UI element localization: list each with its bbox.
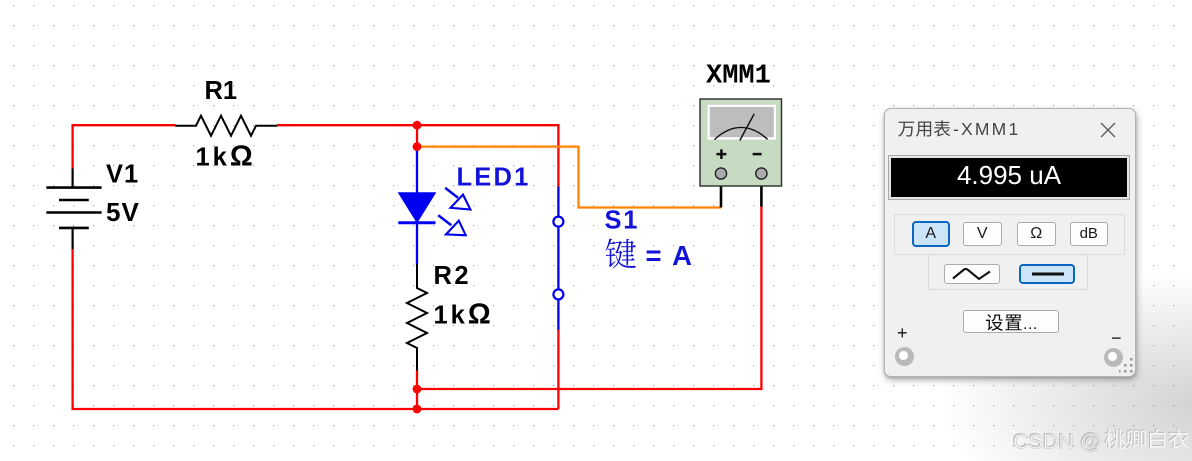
button DC (selected) [1019, 264, 1075, 285]
junction node dot rail lower [413, 405, 422, 414]
button A (selected) [912, 221, 951, 247]
resistor R1 [175, 116, 277, 136]
panel title [953, 119, 1020, 140]
panel title CJK 万用表 [898, 120, 950, 136]
XMM1 minus wire (black) [760, 178, 763, 207]
wire: R1 to switch corner (red) [277, 125, 558, 187]
signal group box [928, 254, 1088, 290]
svg-text:= A: = A [646, 240, 695, 271]
wire: node to node (red) [416, 125, 418, 146]
wire: battery top to R1 (red) [73, 125, 176, 169]
svg-text:5V: 5V [106, 197, 140, 227]
LED1 anode wire (blue) [416, 150, 418, 193]
junction node dot top [413, 121, 422, 130]
minus terminal label [1111, 328, 1122, 349]
junction node dot rail upper [413, 385, 422, 394]
minus terminal jack [1104, 348, 1123, 367]
resistor R2 [407, 264, 427, 370]
XMM1 plus wire (black) [720, 178, 723, 208]
LED1 emission arrow 1 [445, 188, 470, 210]
wire: R2 bottom to node A rail to XMM1 minus (red) [417, 206, 761, 409]
svg-text:LED1: LED1 [457, 164, 531, 192]
wire: orange node to switch to XMM1 plus [417, 147, 721, 208]
bottom-right corner shading [935, 245, 1192, 461]
svg-text:XMM1: XMM1 [706, 62, 771, 92]
svg-text:1kΩ: 1kΩ [196, 141, 256, 173]
button AC (sine) [944, 264, 1001, 284]
svg-text:R1: R1 [205, 77, 238, 105]
plus terminal label [897, 323, 908, 344]
watermark CSDN @桃卿白衣 [1012, 428, 1189, 453]
panel close button [1100, 122, 1116, 138]
LED1 emission arrow 2 [438, 215, 466, 235]
button Ω [1017, 222, 1056, 247]
switch S1 terminal circle bottom [553, 289, 563, 299]
wire: switch bottom leg (red) [557, 330, 559, 410]
switch S1 terminal circle top [553, 217, 563, 227]
LED1 cathode wire (blue) [416, 224, 418, 265]
button V [963, 222, 1002, 247]
svg-text:S1: S1 [605, 207, 640, 235]
battery V1 [46, 169, 101, 250]
plus terminal jack [895, 347, 914, 366]
junction node dot orange tap [413, 142, 422, 151]
label 键 (of 键 = A) [606, 239, 637, 269]
panel reading [889, 156, 1129, 198]
settings button CJK 设置 [986, 314, 1038, 333]
svg-text:1kΩ: 1kΩ [434, 299, 494, 331]
multimeter panel 万用表-XMM1 [884, 108, 1136, 377]
multimeter XMM1 icon [700, 99, 782, 186]
svg-text:V1: V1 [106, 161, 139, 189]
wire: battery bottom to switch bottom (red) [73, 249, 559, 410]
panel display [889, 156, 1129, 199]
LED1 triangle [399, 193, 435, 222]
resize grip [1119, 357, 1134, 374]
settings button 设置... [963, 310, 1059, 333]
switch S1 lead (blue) [557, 187, 559, 330]
mode group box [894, 214, 1125, 255]
button dB [1070, 222, 1109, 247]
svg-text:R2: R2 [434, 262, 472, 290]
LED1 cathode bar [398, 221, 435, 224]
